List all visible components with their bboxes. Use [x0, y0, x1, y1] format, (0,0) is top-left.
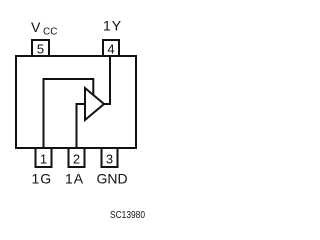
svg-text:5: 5 [37, 42, 44, 57]
svg-text:1: 1 [40, 152, 47, 167]
svg-text:V: V [31, 19, 41, 35]
svg-text:2: 2 [73, 152, 80, 167]
svg-text:3: 3 [106, 152, 113, 167]
buffer triangle [85, 88, 104, 120]
pin 1 box [36, 148, 52, 167]
svg-text:1A: 1A [65, 171, 84, 187]
svg-text:4: 4 [107, 42, 114, 57]
pin 2 box [69, 148, 85, 167]
pin 4 box [103, 40, 119, 56]
pin 3 box [102, 148, 118, 167]
package body [16, 56, 136, 148]
label VCC [31, 19, 57, 38]
svg-text:1Y: 1Y [103, 18, 122, 34]
wire 1A input from pin 2 up to buffer input [77, 104, 86, 148]
wire 1G enable from pin 1 up, right, down to buffer top [44, 79, 94, 148]
pin 5 box [32, 40, 49, 56]
svg-text:CC: CC [43, 27, 57, 38]
svg-text:SC13980: SC13980 [110, 210, 145, 221]
svg-text:GND: GND [97, 171, 128, 187]
wire 1Y output from buffer tip right then up to pin 4 [103, 57, 110, 104]
svg-text:1G: 1G [32, 171, 53, 187]
